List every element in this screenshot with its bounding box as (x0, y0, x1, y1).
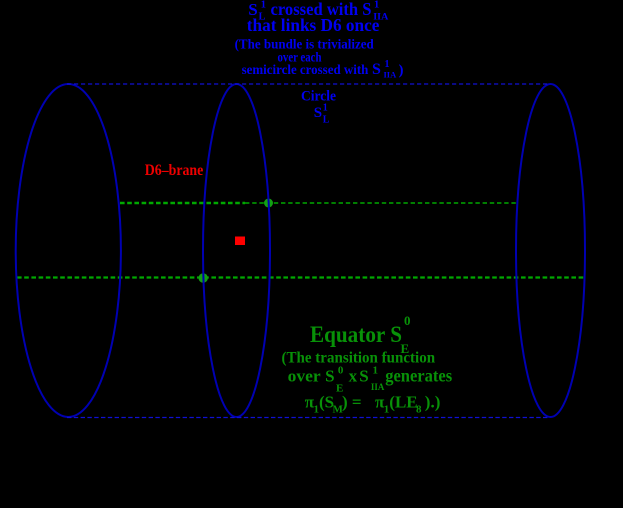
svg-text:semicircle crossed with: semicircle crossed with (242, 63, 372, 78)
svg-text:(LE: (LE (389, 393, 417, 412)
right end circle of cylinder (516, 84, 585, 417)
svg-text:over: over (288, 366, 321, 385)
bottom dashed cylinder edge (67, 417, 549, 419)
svg-text:IIA: IIA (384, 70, 398, 80)
svg-text:1: 1 (374, 0, 379, 11)
top dashed cylinder edge (67, 83, 549, 85)
lower green dashed equator line (17, 276, 585, 278)
svg-text:1: 1 (373, 365, 379, 377)
equator green dot on middle circle right edge (264, 199, 273, 208)
svg-text:Equator S: Equator S (310, 322, 402, 347)
svg-text:1: 1 (323, 103, 328, 114)
left end circle of cylinder (16, 84, 121, 417)
svg-text:D6–brane: D6–brane (145, 162, 204, 179)
svg-text:0: 0 (404, 313, 411, 328)
svg-text:): ) (399, 63, 404, 79)
svg-text:IIA: IIA (371, 383, 385, 393)
svg-text:8: 8 (416, 404, 422, 416)
svg-text:).): ).) (425, 393, 441, 412)
svg-text:x: x (349, 366, 358, 385)
svg-text:S: S (314, 105, 322, 121)
svg-text:L: L (323, 115, 330, 126)
middle circle of cylinder (203, 84, 270, 417)
red D6-brane marker square (235, 237, 245, 246)
upper green dashed latitude line (thick left part) (120, 202, 245, 204)
svg-text:S: S (359, 366, 368, 385)
svg-text:1: 1 (261, 0, 266, 11)
svg-text:) =: ) = (342, 393, 362, 412)
svg-text:that links D6 once: that links D6 once (247, 15, 380, 35)
svg-text:1: 1 (385, 59, 390, 70)
svg-text:(The transition function: (The transition function (282, 350, 436, 367)
svg-text:0: 0 (338, 365, 344, 377)
green dot on middle circle left edge (199, 273, 208, 282)
svg-text:S: S (372, 61, 381, 78)
upper green dashed latitude line (thin right part) (245, 202, 516, 204)
svg-text:S: S (325, 366, 334, 385)
svg-text:generates: generates (385, 365, 452, 385)
svg-text:Circle: Circle (301, 88, 336, 104)
